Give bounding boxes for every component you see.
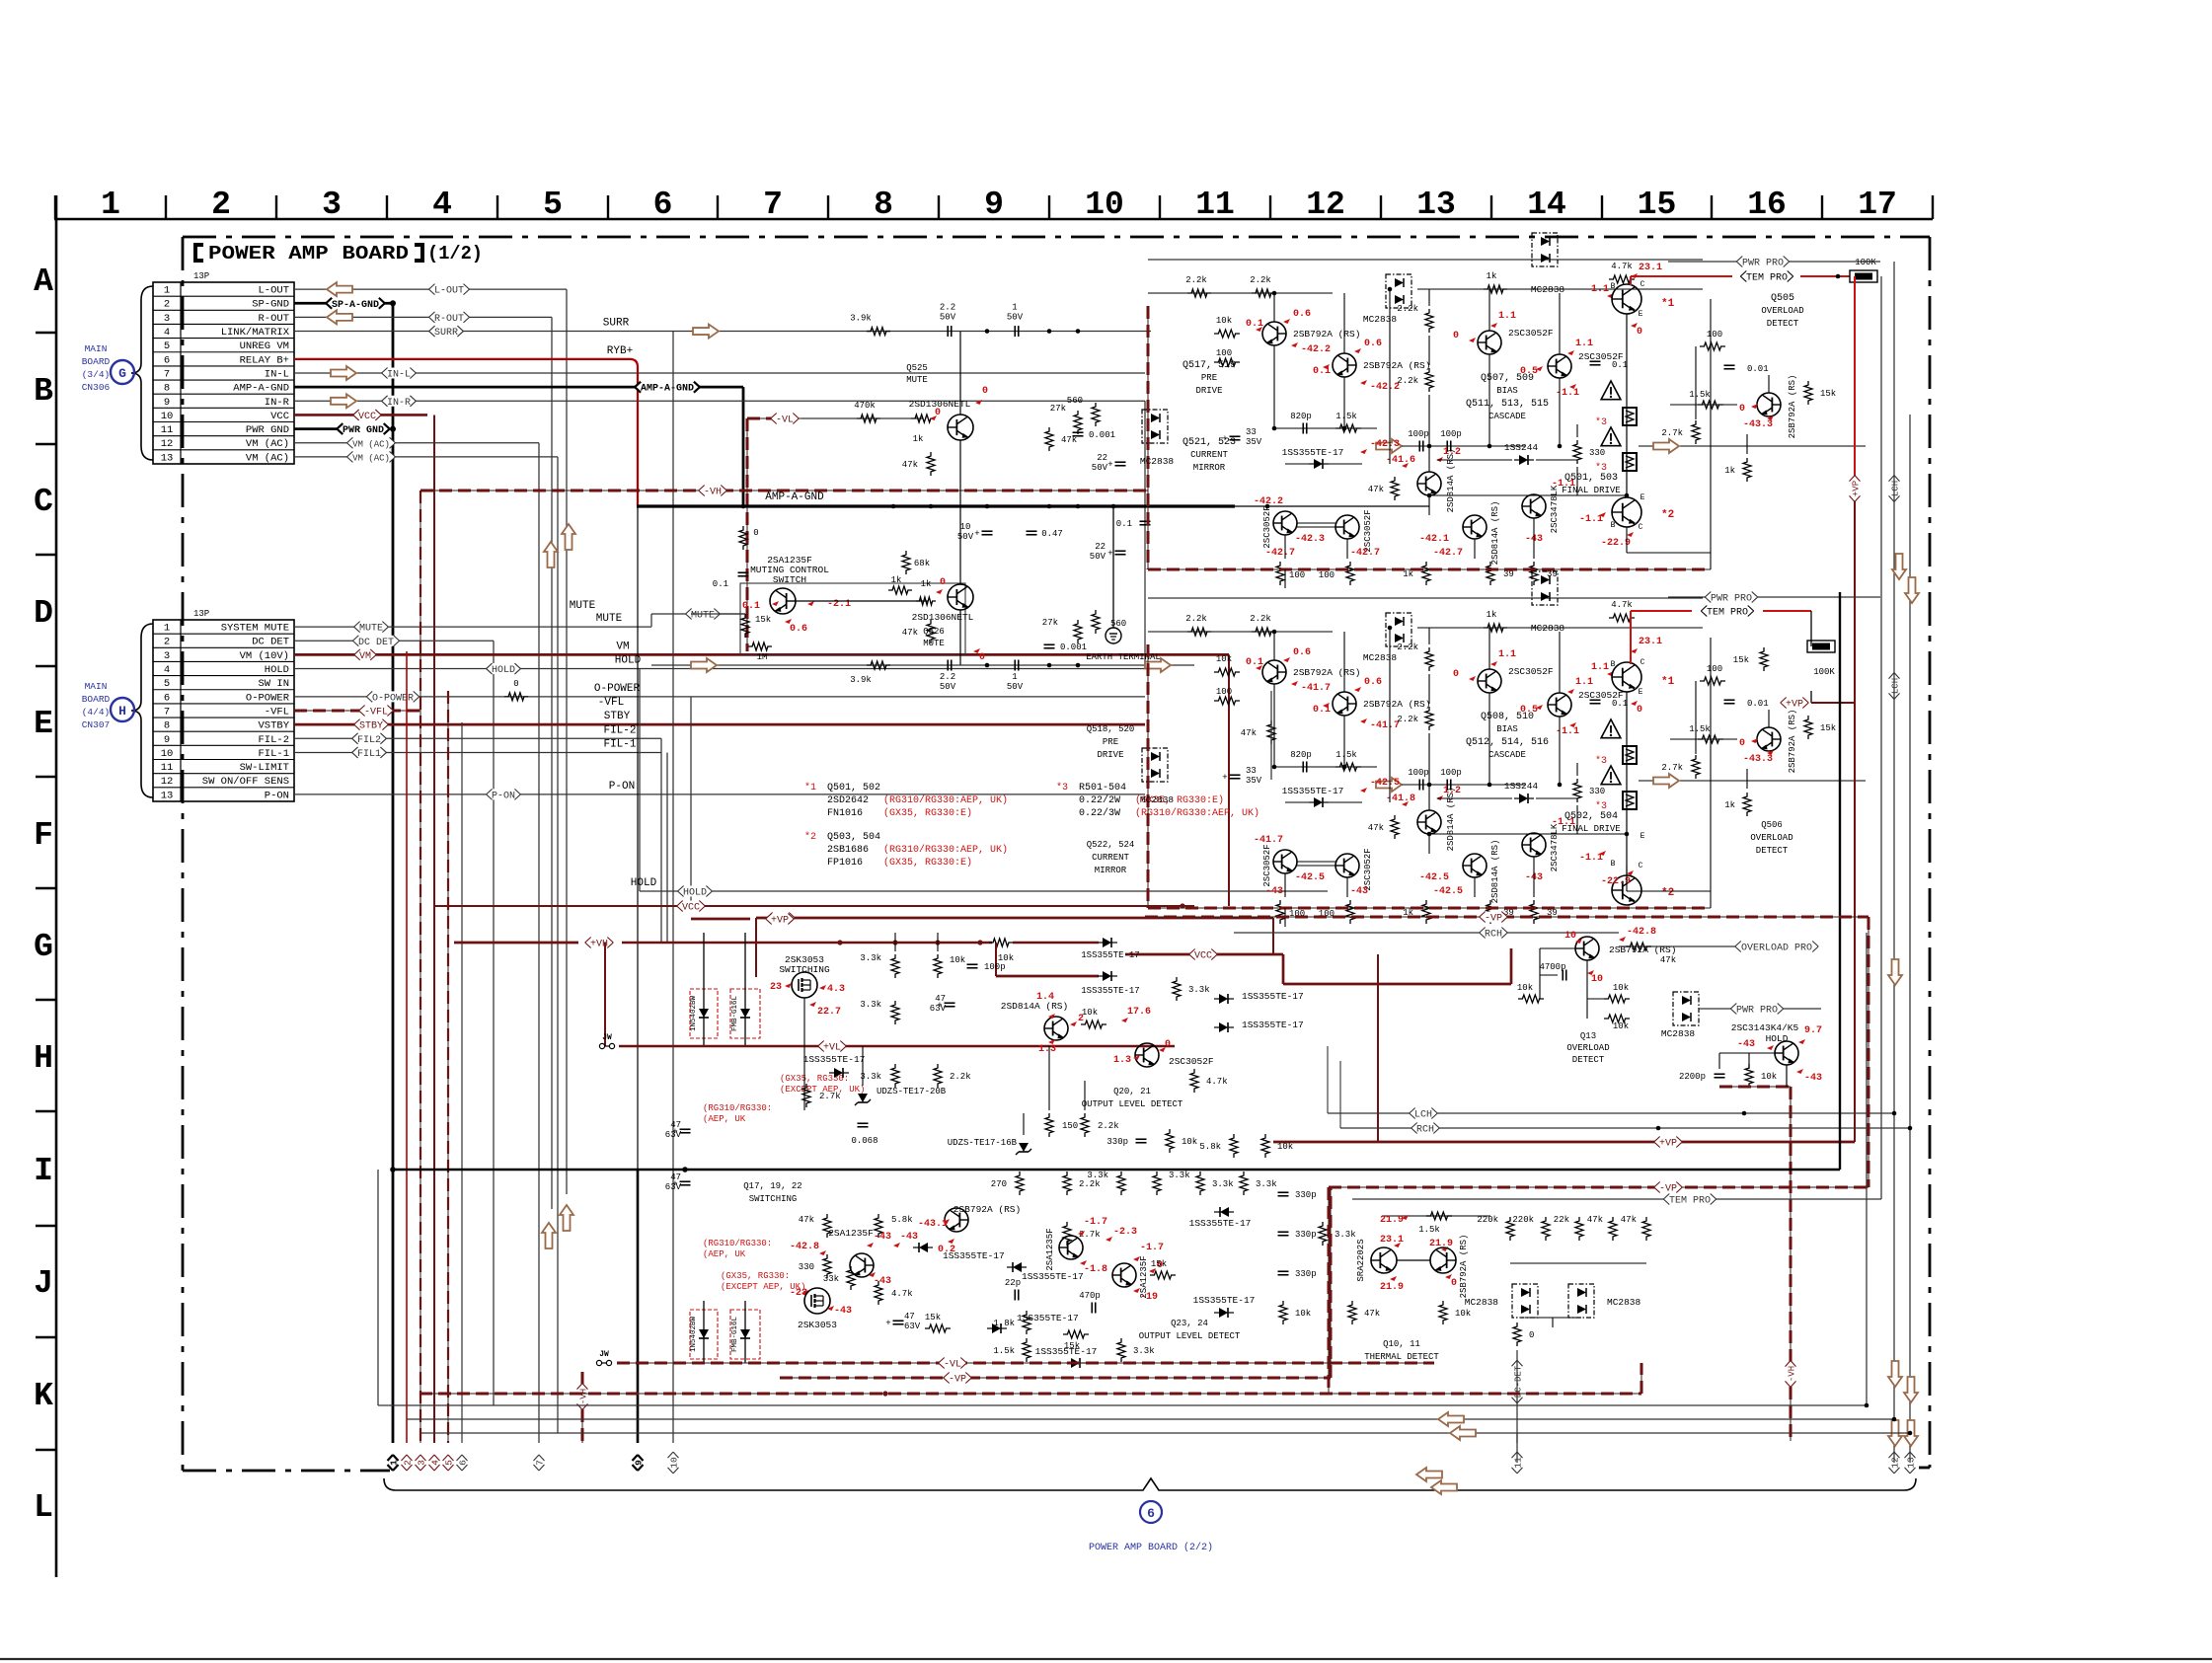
svg-text:0.47: 0.47 bbox=[1041, 529, 1063, 539]
wire LCH row bbox=[1328, 1112, 1894, 1114]
svg-text:15k: 15k bbox=[1733, 655, 1749, 665]
capacitor 0.1 mute bbox=[738, 571, 749, 573]
net flag RCH row bbox=[1411, 1123, 1440, 1134]
svg-text:4700p: 4700p bbox=[1539, 962, 1565, 972]
svg-text:MUTE: MUTE bbox=[691, 611, 715, 622]
svg-text:13: 13 bbox=[161, 790, 174, 801]
net flag +VL bbox=[818, 1041, 847, 1052]
svg-text:H: H bbox=[118, 704, 126, 718]
svg-text:VM (AC): VM (AC) bbox=[352, 453, 390, 463]
svg-text:SWITCHING: SWITCHING bbox=[779, 964, 830, 975]
capacitor 0.1 mid bbox=[1140, 520, 1151, 522]
svg-text:VM (AC): VM (AC) bbox=[246, 438, 289, 450]
wire right vert 1906 bbox=[1880, 276, 1882, 1199]
ch1 resistor 2.2k d bbox=[1425, 368, 1433, 392]
wire DC DET bbox=[294, 640, 494, 642]
wire SURR bbox=[294, 331, 1151, 333]
ruler tick bbox=[496, 195, 498, 219]
ch2 capacitor 100p b bbox=[1446, 780, 1448, 791]
svg-text:3.3k: 3.3k bbox=[1169, 1171, 1190, 1180]
transistor 2SB792A th bbox=[1430, 1247, 1456, 1273]
svg-text:HOLD: HOLD bbox=[631, 877, 657, 889]
svg-text:8: 8 bbox=[874, 187, 893, 223]
svg-text:10k: 10k bbox=[1182, 1137, 1197, 1147]
ch2 resistor 100 cm1 bbox=[1276, 900, 1284, 924]
svg-text:G: G bbox=[34, 929, 53, 965]
svg-text:IN-R: IN-R bbox=[387, 398, 411, 409]
svg-text:8: 8 bbox=[164, 720, 170, 732]
svg-text:1k: 1k bbox=[1487, 610, 1497, 620]
svg-text:VCC: VCC bbox=[1194, 951, 1212, 962]
svg-text:THERMAL DETECT: THERMAL DETECT bbox=[1364, 1352, 1439, 1362]
resistor 47k swl bbox=[823, 1214, 831, 1238]
svg-text:1.1: 1.1 bbox=[1498, 311, 1516, 322]
svg-text:D: D bbox=[34, 595, 53, 632]
svg-text:11: 11 bbox=[161, 762, 174, 774]
svg-text:5: 5 bbox=[164, 340, 170, 352]
junction 100K bbox=[1836, 274, 1841, 279]
svg-text:-VFL: -VFL bbox=[598, 697, 624, 709]
resistor 5.8k q20 bbox=[1230, 1134, 1238, 1158]
resistor 0 mute bbox=[739, 526, 747, 550]
svg-text:3.9k: 3.9k bbox=[850, 675, 872, 685]
svg-text:2.7k: 2.7k bbox=[1661, 763, 1683, 773]
ch2 wire col 2.2k bbox=[1428, 628, 1430, 644]
svg-text:E: E bbox=[34, 706, 53, 742]
svg-text:2SB792A (RS): 2SB792A (RS) bbox=[1363, 699, 1430, 710]
resistor 3.3k r4 bbox=[1240, 1172, 1248, 1195]
svg-text:2SB792A (RS): 2SB792A (RS) bbox=[1363, 360, 1430, 371]
svg-text:7: 7 bbox=[164, 368, 170, 380]
svg-text:100p: 100p bbox=[1408, 429, 1429, 439]
svg-text:15k: 15k bbox=[755, 615, 771, 625]
svg-text:3.9k: 3.9k bbox=[850, 314, 872, 324]
transistor 2SA1235F swe bbox=[1112, 1263, 1136, 1287]
row tick bbox=[36, 999, 56, 1001]
ch2 capacitor 0.1 fd bbox=[1590, 699, 1601, 701]
svg-text:VM: VM bbox=[616, 641, 629, 652]
wire RYB+ corner bbox=[630, 359, 638, 506]
wire TEM PRO top red bbox=[1631, 275, 1732, 277]
row tick bbox=[36, 332, 56, 334]
svg-text:47k: 47k bbox=[799, 1215, 814, 1225]
svg-text:(RG310/RG330:AEP, UK): (RG310/RG330:AEP, UK) bbox=[883, 844, 1008, 856]
svg-text:-43: -43 bbox=[900, 1232, 918, 1243]
svg-text:0.6: 0.6 bbox=[1364, 339, 1382, 349]
svg-text:0.1: 0.1 bbox=[1612, 699, 1628, 709]
svg-text:1.3: 1.3 bbox=[1038, 1044, 1056, 1055]
ch2 wire 820 row bbox=[1274, 766, 1377, 768]
svg-text:22: 22 bbox=[1097, 453, 1107, 463]
svg-text:330: 330 bbox=[1589, 787, 1605, 796]
ch1 resistor 2.2k b bbox=[1252, 289, 1275, 297]
svg-text:0.6: 0.6 bbox=[790, 624, 807, 635]
svg-text:*1: *1 bbox=[804, 782, 816, 794]
svg-text:RCH: RCH bbox=[1416, 1125, 1434, 1136]
svg-text:FINAL DRIVE: FINAL DRIVE bbox=[1562, 486, 1620, 495]
svg-text:(RG310/RG330:: (RG310/RG330: bbox=[703, 1103, 772, 1113]
wire AMP-A-GND bold stub bbox=[294, 386, 743, 389]
ch2 wire 2.2k row bbox=[1148, 631, 1333, 633]
wire TEM PRO ch2 red bbox=[1631, 610, 1692, 612]
photocoupler MC2838 thb bbox=[1568, 1284, 1594, 1318]
ch1 photocoupler MC2838 mid bbox=[1386, 274, 1411, 308]
wire TEM PRO ch2 collector bbox=[1630, 611, 1632, 664]
pin flag 1 bbox=[388, 1455, 400, 1471]
svg-text:0.1: 0.1 bbox=[1612, 360, 1628, 370]
wire amp-a-gnd thin ext bbox=[1235, 505, 1429, 507]
svg-text:P-ON: P-ON bbox=[265, 790, 289, 801]
jumper JW b bbox=[596, 1360, 601, 1365]
svg-text:MC2838: MC2838 bbox=[1363, 314, 1398, 325]
wire +VP mid drop bbox=[1377, 954, 1379, 1142]
svg-text:10k: 10k bbox=[1295, 1309, 1311, 1319]
resistor 0 o-power bbox=[504, 693, 528, 701]
svg-text:3.3k: 3.3k bbox=[1212, 1179, 1234, 1189]
svg-text:K: K bbox=[34, 1378, 53, 1414]
row tick bbox=[36, 1110, 56, 1112]
svg-text:6: 6 bbox=[164, 354, 170, 366]
diode 1SS355 swc2 bbox=[1013, 1262, 1022, 1272]
svg-text:2.2k: 2.2k bbox=[1397, 304, 1418, 314]
ch1 resistor 39 a bbox=[1487, 562, 1494, 585]
dashed maroon hold bbox=[1719, 1086, 1791, 1088]
svg-text:VM (AC): VM (AC) bbox=[246, 452, 289, 464]
svg-text:DETECT: DETECT bbox=[1767, 319, 1799, 329]
capacitor 4700p bbox=[1562, 970, 1564, 981]
wire right vert 1919 bbox=[1893, 262, 1895, 1463]
svg-text:PRE: PRE bbox=[1103, 737, 1118, 747]
wire VM AC 1 bbox=[294, 442, 539, 444]
svg-text:100K: 100K bbox=[1813, 667, 1835, 677]
resistor 3.3k swa bbox=[891, 954, 899, 978]
ruler tick bbox=[607, 195, 609, 219]
svg-text:100p: 100p bbox=[1440, 429, 1462, 439]
svg-text:1SS355TE-17: 1SS355TE-17 bbox=[943, 1250, 1005, 1261]
svg-text:-VFL: -VFL bbox=[265, 706, 289, 718]
arrow mute lower bbox=[691, 658, 717, 672]
ch1 resistor 100 pre bbox=[1214, 358, 1240, 366]
svg-text:4.7k: 4.7k bbox=[1611, 262, 1633, 271]
svg-text:3: 3 bbox=[417, 1460, 427, 1466]
earth terminal bbox=[1106, 628, 1121, 643]
wire -VP row dashed bbox=[1329, 1186, 1869, 1188]
svg-text:R-OUT: R-OUT bbox=[258, 313, 289, 325]
capacitor 22 50V a bbox=[1115, 461, 1126, 463]
svg-text:1k: 1k bbox=[921, 579, 932, 589]
Q505 wire ov out row bbox=[1639, 445, 1866, 447]
diode 1SS355 swg bbox=[992, 1323, 1001, 1333]
ruler tick bbox=[1159, 195, 1161, 219]
svg-text:1SS355TE-17: 1SS355TE-17 bbox=[1282, 447, 1344, 458]
svg-text:DRIVE: DRIVE bbox=[1097, 750, 1123, 760]
Q506 wire ov rows bbox=[1670, 738, 1737, 740]
svg-text:35V: 35V bbox=[1246, 437, 1262, 447]
svg-text:+: + bbox=[1107, 460, 1112, 470]
svg-text:2SD814A (RS): 2SD814A (RS) bbox=[1490, 840, 1500, 904]
net flag L-OUT bbox=[429, 284, 470, 295]
pin flag 5 bbox=[443, 1455, 455, 1471]
wire sw mid rows bbox=[803, 998, 805, 1110]
svg-text:0: 0 bbox=[1637, 705, 1642, 716]
photocoupler MC2838 tha bbox=[1512, 1284, 1538, 1318]
up arrows bundle bbox=[544, 542, 558, 567]
svg-text:SP-A-GND: SP-A-GND bbox=[332, 300, 379, 311]
svg-text:1.5k: 1.5k bbox=[1335, 750, 1357, 760]
svg-text:J: J bbox=[34, 1265, 53, 1302]
svg-text:-42.3: -42.3 bbox=[1295, 534, 1325, 545]
svg-text:47k: 47k bbox=[902, 628, 918, 638]
svg-text:5.8k: 5.8k bbox=[891, 1215, 913, 1225]
wire hold drop bbox=[1786, 1065, 1788, 1087]
svg-text:IN-L: IN-L bbox=[265, 368, 289, 380]
wire FIL-1 bbox=[294, 751, 661, 753]
resistor 1k a bbox=[888, 586, 912, 594]
ref circle G bbox=[111, 360, 134, 384]
diode sw mid2 bbox=[1103, 971, 1111, 981]
svg-text:1k: 1k bbox=[1724, 800, 1735, 810]
svg-text:MC2838: MC2838 bbox=[1607, 1297, 1641, 1308]
svg-text:Q501, 503: Q501, 503 bbox=[1564, 473, 1618, 484]
wire +VP ch2 red bbox=[1811, 702, 1855, 704]
wire hold mid vert bbox=[639, 669, 641, 891]
svg-text:+: + bbox=[885, 1319, 890, 1328]
svg-text:5: 5 bbox=[164, 678, 170, 690]
svg-text:1SS355TE-17: 1SS355TE-17 bbox=[1242, 991, 1304, 1002]
svg-text:-43: -43 bbox=[1737, 1039, 1755, 1050]
svg-text:0: 0 bbox=[1637, 327, 1642, 338]
pin flag 6 bbox=[457, 1455, 469, 1471]
svg-text:0: 0 bbox=[940, 577, 946, 588]
arrow down right mid bbox=[1892, 554, 1906, 579]
wire RELAY B+ red bbox=[294, 358, 630, 360]
ruler tick bbox=[1601, 195, 1603, 219]
row tick bbox=[36, 1336, 56, 1338]
svg-text:4: 4 bbox=[164, 327, 170, 339]
wire +VH maroon bbox=[454, 942, 578, 945]
resistor 27k q525 bbox=[1074, 411, 1082, 434]
net flag MUTE 2 bbox=[686, 609, 721, 620]
svg-text:1SS355TE-17: 1SS355TE-17 bbox=[803, 1054, 866, 1065]
transistor Q13 2SB792A bbox=[1575, 937, 1599, 960]
svg-text:100: 100 bbox=[1216, 687, 1232, 697]
svg-text:FIL-1: FIL-1 bbox=[603, 738, 636, 750]
capacitor 47 63V sw bbox=[945, 1002, 955, 1004]
net flag PWR PRO top bbox=[1736, 257, 1789, 267]
svg-text:Q17, 19, 22: Q17, 19, 22 bbox=[743, 1181, 801, 1191]
ch1 resistor 10k pre bbox=[1214, 330, 1240, 338]
svg-text:2SB792A (RS): 2SB792A (RS) bbox=[953, 1204, 1021, 1215]
transistor 2SC3052F sw bbox=[1135, 1043, 1159, 1067]
svg-text:LCH: LCH bbox=[1891, 481, 1901, 496]
svg-text:-42.5: -42.5 bbox=[1295, 872, 1325, 883]
svg-text:6: 6 bbox=[164, 692, 170, 704]
svg-text:2SD814A (RS): 2SD814A (RS) bbox=[1490, 501, 1500, 566]
resistor 2.2k swc bbox=[1063, 1172, 1071, 1195]
capacitor 330p r7 bbox=[1278, 1231, 1289, 1233]
resistor 10k q20 bbox=[1166, 1129, 1174, 1153]
resistor 27k low bbox=[1074, 620, 1082, 643]
svg-text:MC2838: MC2838 bbox=[1140, 456, 1175, 467]
wire sw top right bbox=[1013, 942, 1099, 944]
svg-text:47: 47 bbox=[904, 1312, 915, 1322]
resistor 560 b bbox=[1092, 610, 1100, 634]
net flag VM AC 1 bbox=[346, 437, 395, 448]
svg-text:2SB792A (RS): 2SB792A (RS) bbox=[1459, 1235, 1469, 1299]
wire pin5 dashed vert bbox=[447, 691, 449, 1443]
svg-text:(4/4): (4/4) bbox=[82, 707, 111, 718]
svg-text:1.5k: 1.5k bbox=[1689, 724, 1711, 734]
ruler tick bbox=[1380, 195, 1382, 219]
svg-text:-VH: -VH bbox=[704, 488, 722, 498]
wire VCC vertical maroon bbox=[433, 415, 435, 1443]
svg-text:*3: *3 bbox=[1056, 782, 1068, 794]
svg-text:STBY: STBY bbox=[604, 711, 631, 722]
resistor 5.8k swl bbox=[875, 1214, 882, 1238]
Q506 arrow ov bbox=[1653, 774, 1679, 788]
wire pwr pro row bbox=[1699, 1008, 1821, 1010]
wire sw diode verts bbox=[703, 933, 705, 1046]
svg-text:-43.3: -43.3 bbox=[1743, 754, 1773, 765]
wire VM AC 1 vert bbox=[538, 443, 540, 1443]
svg-text:0.22/3W: 0.22/3W bbox=[1079, 807, 1120, 819]
svg-text:(GX35, RG330:: (GX35, RG330: bbox=[721, 1271, 790, 1281]
svg-text:FIL-1: FIL-1 bbox=[258, 748, 289, 760]
svg-text:560: 560 bbox=[1110, 619, 1126, 629]
resistor 15k ch2b bbox=[1760, 647, 1768, 671]
diode box FMB-G16L b bbox=[730, 1310, 760, 1359]
svg-text:+: + bbox=[1222, 773, 1227, 783]
capacitor 47 63V lb bbox=[680, 1180, 691, 1182]
wire right vert 1891 bbox=[1866, 933, 1868, 1405]
wire VM AC 2 vert bbox=[557, 457, 559, 1433]
capacitor 330p r8 bbox=[1278, 1270, 1289, 1272]
ch1 resistor 1k pre bbox=[1484, 285, 1507, 293]
ch2 wire block col d bbox=[1626, 692, 1628, 875]
wire VCC right maroon bbox=[1125, 953, 1283, 956]
svg-text:1: 1 bbox=[1012, 672, 1017, 682]
ch2 arrow cascade bbox=[1376, 778, 1402, 792]
arrow R-OUT bbox=[327, 310, 352, 324]
svg-text:50V: 50V bbox=[1092, 463, 1108, 473]
svg-text:2.2k: 2.2k bbox=[1185, 614, 1207, 624]
net flag +VH g bbox=[585, 938, 614, 948]
svg-text:50V: 50V bbox=[1007, 313, 1024, 323]
svg-text:6: 6 bbox=[458, 1460, 469, 1466]
svg-text:2SC3052F: 2SC3052F bbox=[1169, 1056, 1214, 1067]
svg-text:2: 2 bbox=[164, 637, 170, 648]
svg-text:LCH: LCH bbox=[1891, 678, 1901, 694]
capacitor 0.47 bbox=[1027, 530, 1037, 532]
svg-text:FMB-G16L: FMB-G16L bbox=[731, 1317, 739, 1353]
ch2 wire col cm1 bbox=[1284, 873, 1286, 897]
ch2 transistor 2SC3052F b1 bbox=[1478, 669, 1501, 693]
ch2 resistor 2.2k c bbox=[1425, 647, 1433, 671]
svg-text:22.7: 22.7 bbox=[817, 1007, 841, 1018]
svg-text:2.2k: 2.2k bbox=[1397, 643, 1418, 652]
ch2 wire bias row bbox=[1429, 833, 1627, 835]
ch1 wire 2.2k row bbox=[1148, 292, 1333, 294]
svg-text:1.3: 1.3 bbox=[1113, 1055, 1131, 1066]
wire R-OUT vertical bbox=[551, 317, 553, 1209]
svg-text:0.1: 0.1 bbox=[1116, 519, 1132, 529]
svg-text:330p: 330p bbox=[1295, 1190, 1317, 1200]
svg-text:+VP: +VP bbox=[1852, 481, 1862, 496]
ch1 wire cm row bbox=[1297, 522, 1335, 524]
svg-text:2SD1306NETL: 2SD1306NETL bbox=[912, 612, 974, 623]
ch2 transistor 2SB792A pre1 bbox=[1262, 660, 1286, 684]
svg-text:MC2838: MC2838 bbox=[1465, 1297, 1499, 1308]
svg-text:UDZS-TE17-16B: UDZS-TE17-16B bbox=[948, 1138, 1018, 1148]
svg-text:10k: 10k bbox=[950, 955, 965, 965]
net flag O-POWER bbox=[366, 691, 419, 702]
svg-text:0: 0 bbox=[1451, 1278, 1457, 1289]
svg-text:2.2k: 2.2k bbox=[1397, 715, 1418, 724]
svg-text:IN-R: IN-R bbox=[265, 397, 290, 409]
svg-text:Q13: Q13 bbox=[1580, 1031, 1596, 1041]
ch2 transistor 2SC3052F cm1 bbox=[1273, 850, 1297, 873]
wire -VP dashed low bbox=[780, 1377, 1331, 1379]
junction PWR GND bbox=[390, 426, 396, 432]
svg-text:63V: 63V bbox=[665, 1182, 682, 1192]
svg-text:-VFL: -VFL bbox=[364, 708, 388, 718]
svg-text:47k: 47k bbox=[1364, 1309, 1380, 1319]
svg-text:MUTE: MUTE bbox=[923, 639, 945, 648]
svg-text:12: 12 bbox=[161, 438, 174, 450]
svg-text:MAIN: MAIN bbox=[85, 343, 108, 354]
wire SYSTEM MUTE bbox=[294, 626, 651, 628]
svg-text:HOLD: HOLD bbox=[492, 665, 515, 676]
bottom page edge line bbox=[0, 1658, 2212, 1660]
net flag LCH vert2 bbox=[1889, 673, 1901, 700]
resistor 0 th bbox=[1513, 1323, 1521, 1346]
ch1 resistor 39 b bbox=[1530, 562, 1538, 585]
wire RCH row bbox=[1340, 1127, 1910, 1129]
svg-text:27k: 27k bbox=[1042, 618, 1058, 628]
resistor 3.3k r3 bbox=[1196, 1172, 1204, 1195]
resistor 68k bbox=[902, 551, 910, 574]
arrow IN-L bbox=[331, 366, 356, 380]
wire th pair bbox=[1397, 1259, 1430, 1261]
svg-text:68k: 68k bbox=[914, 559, 930, 568]
ch2 transistor 2SB792A pre2 bbox=[1333, 692, 1356, 716]
arrow L-OUT bbox=[327, 282, 352, 296]
ch1 wire col d814 bbox=[1428, 446, 1430, 472]
wire -VL right bbox=[801, 417, 923, 419]
ch2 wire col d814 bbox=[1428, 785, 1430, 810]
wire -VFL maroon dashed bbox=[294, 710, 420, 712]
capacitor 47 63V lc bbox=[893, 1320, 904, 1322]
ch1 emitter resistor box a bbox=[1623, 408, 1637, 425]
svg-text:SW-LIMIT: SW-LIMIT bbox=[240, 762, 289, 774]
wire dashed bottom vert bbox=[1640, 1363, 1642, 1394]
svg-text:0.068: 0.068 bbox=[851, 1136, 877, 1146]
svg-text:15k: 15k bbox=[1820, 723, 1836, 733]
svg-text:PWR GND: PWR GND bbox=[246, 424, 289, 436]
svg-text:TEM PRO: TEM PRO bbox=[1669, 1196, 1711, 1207]
jumper JW a bbox=[599, 1043, 604, 1048]
net flag +VP g bbox=[767, 913, 796, 924]
svg-text:3.3k: 3.3k bbox=[860, 1000, 881, 1010]
svg-text:15k: 15k bbox=[1151, 1259, 1167, 1269]
row tick bbox=[36, 554, 56, 556]
ch1 wire col 330 bbox=[1576, 424, 1578, 437]
svg-text:17.6: 17.6 bbox=[1127, 1007, 1151, 1018]
svg-text:13: 13 bbox=[1906, 1457, 1917, 1469]
capacitor 10 50V bbox=[982, 530, 993, 532]
svg-text:63V: 63V bbox=[930, 1004, 947, 1014]
svg-text:VCC: VCC bbox=[682, 903, 700, 914]
